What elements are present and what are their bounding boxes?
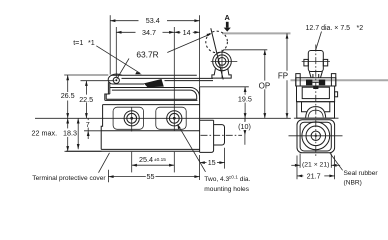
dashed circle (roller free position) <box>206 31 228 53</box>
svg-text:dia.: dia. <box>240 176 251 183</box>
svg-text:Terminal protective cover: Terminal protective cover <box>32 175 106 182</box>
lever plate tab right <box>331 74 335 86</box>
svg-text:19.5: 19.5 <box>238 95 252 104</box>
dim 26.5 <box>64 74 108 76</box>
mounting hole 1 <box>124 111 139 126</box>
svg-text:14: 14 <box>183 28 191 37</box>
lever pivot mount block <box>108 82 109 94</box>
svg-text:(21 × 21): (21 × 21) <box>302 162 329 169</box>
lever pivot <box>113 77 119 83</box>
plunger housing right <box>200 120 214 152</box>
svg-text:15: 15 <box>208 158 216 167</box>
lever edge line in raised position <box>211 28 223 79</box>
body bottom second line <box>66 150 200 152</box>
dim 53.4 <box>109 15 111 74</box>
lever strip to bracket <box>122 77 214 79</box>
dim 18.3 <box>77 118 79 149</box>
node hole centerline (panel reference line) <box>35 117 291 119</box>
roller axle flange left <box>304 59 308 66</box>
svg-text:22.5: 22.5 <box>79 95 93 104</box>
boot circles <box>302 122 330 150</box>
dim 19.5 <box>200 86 249 88</box>
lever fork dark details <box>306 80 312 86</box>
dim 25.4 +-0.15 <box>131 152 133 173</box>
svg-text:±0.1: ±0.1 <box>229 175 239 181</box>
boot dome (dark rubber) <box>306 107 326 118</box>
mounting hole boss pad 1 <box>113 107 143 129</box>
cover left edge double line <box>106 94 197 99</box>
lever bump over pivot <box>111 74 122 75</box>
roller (left view) <box>213 52 232 71</box>
seam extension left <box>84 130 101 132</box>
right view roller <box>308 51 323 72</box>
svg-text:OP: OP <box>259 81 271 90</box>
svg-text:(10): (10) <box>238 122 251 131</box>
body square (right view) <box>297 120 335 153</box>
boot dome inner line <box>308 110 323 117</box>
dim 15 <box>224 148 226 169</box>
svg-text:Two, 4.3: Two, 4.3 <box>204 176 229 183</box>
svg-text:(NBR): (NBR) <box>344 179 362 186</box>
crosshair horizontal <box>289 135 343 137</box>
terminal protective cover (left view top cover outline) <box>105 88 200 101</box>
bottom extension line left <box>65 150 102 152</box>
dim 7 <box>87 118 89 120</box>
panel line across right view <box>294 117 339 119</box>
dim OP <box>223 49 267 51</box>
lever plate bar (right view) <box>296 78 336 86</box>
head plunger pin (dark) <box>313 86 318 89</box>
svg-text:26.5: 26.5 <box>61 91 75 100</box>
cover inner line <box>112 90 197 99</box>
svg-text:55: 55 <box>147 172 155 181</box>
svg-text:7: 7 <box>86 120 90 129</box>
gray reference line top (FP level, left view) <box>222 32 290 34</box>
svg-text:t=1: t=1 <box>73 38 83 47</box>
svg-text:mounting holes: mounting holes <box>204 186 249 193</box>
head inner rect <box>302 87 329 98</box>
roller crosshair <box>211 60 238 62</box>
dim 14 <box>174 31 180 33</box>
dim 21.7 <box>296 156 298 180</box>
gray reference line right view (lever top level) <box>291 79 388 81</box>
lever plate tab left <box>296 74 300 86</box>
lever arm (left view) <box>108 75 145 84</box>
svg-text:25.4: 25.4 <box>139 155 153 164</box>
body seam line <box>101 130 199 132</box>
svg-text:12.7 dia. × 7.5: 12.7 dia. × 7.5 <box>306 25 351 32</box>
body middle block <box>101 87 199 152</box>
dim (21 x 21) <box>299 154 301 168</box>
roller axle flange right <box>323 59 327 66</box>
svg-text:18.3: 18.3 <box>63 129 77 138</box>
roller bracket (left view) <box>212 69 231 79</box>
svg-text:FP: FP <box>278 72 288 81</box>
vertical centerline <box>315 45 317 158</box>
dim 34.7 <box>115 27 117 77</box>
mounting hole 2 <box>167 111 182 126</box>
seal rubber inner square <box>300 122 331 151</box>
head side tab right <box>335 92 338 97</box>
mounting hole boss pad 2 <box>156 107 186 129</box>
svg-text:21.7: 21.7 <box>307 171 321 180</box>
roller fork sides <box>309 71 322 77</box>
svg-text:34.7: 34.7 <box>142 28 156 37</box>
svg-text:±0.15: ±0.15 <box>154 157 166 163</box>
svg-text:*2: *2 <box>357 25 364 32</box>
lever seal wedge (dark) <box>144 79 164 87</box>
dim 22.5 <box>81 80 115 82</box>
svg-text:*1: *1 <box>88 38 95 47</box>
dim (10) <box>244 118 246 122</box>
svg-text:53.4: 53.4 <box>146 16 160 25</box>
roller axle centerline <box>302 61 330 63</box>
svg-text:Seal rubber: Seal rubber <box>344 170 379 177</box>
plunger cap <box>214 125 225 145</box>
dim FP <box>286 33 288 70</box>
svg-text:63.7R: 63.7R <box>136 49 158 59</box>
boot inner lines <box>302 102 330 112</box>
plunger centerline <box>201 134 243 136</box>
dim 22 max <box>67 118 69 128</box>
boot section <box>297 102 335 119</box>
head block (right view) <box>297 86 335 102</box>
svg-text:22 max.: 22 max. <box>32 129 58 138</box>
dim 55 <box>107 170 109 182</box>
svg-text:A: A <box>225 13 231 22</box>
